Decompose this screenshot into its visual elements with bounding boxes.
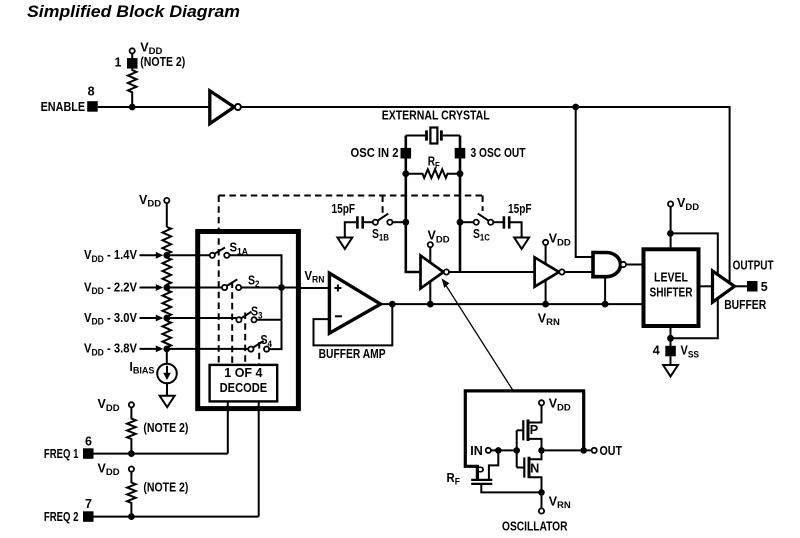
transistor RF (P pass) <box>471 480 492 484</box>
junction node IN <box>495 447 502 454</box>
wire ENABLE to inverter <box>98 106 210 108</box>
switch S4 <box>248 347 253 352</box>
current source IBIAS <box>157 364 177 384</box>
junction node VDD wrap <box>667 230 674 237</box>
level shifter U6 <box>644 249 699 326</box>
svg-text:1: 1 <box>115 55 122 69</box>
arrow VDD-3.8V <box>140 348 158 350</box>
wire buffer to pin 5 <box>735 285 748 287</box>
VDD terminal (inset) <box>539 400 544 405</box>
op-amp U5 buffer amp <box>329 273 380 333</box>
svg-text:DECODE: DECODE <box>220 381 268 395</box>
node tap VDD-1.4V <box>163 252 170 259</box>
wire S2 to common node <box>241 287 298 289</box>
junction node S1B/OSC IN <box>402 219 409 226</box>
svg-text:4: 4 <box>653 344 660 358</box>
N source to VRN <box>529 477 542 492</box>
wire crystal right <box>443 135 460 137</box>
switch S2 <box>222 285 227 290</box>
VDD terminal (level shifter) <box>668 201 673 206</box>
svg-text:P: P <box>530 423 538 437</box>
wire S1C to C2 <box>493 221 503 223</box>
svg-text:N: N <box>530 462 539 476</box>
junction node U3/VRN <box>542 301 549 308</box>
resistor ladder R4 <box>163 290 172 318</box>
switch S1C <box>474 220 479 225</box>
wire S3 to common <box>257 319 282 321</box>
arrow VDD-1.4V <box>140 254 158 256</box>
P source to VDD <box>528 405 542 422</box>
pin 3 pad OSC OUT <box>455 148 466 159</box>
wire OSC IN branch <box>406 136 421 273</box>
buffer supply wrap wire <box>670 233 717 338</box>
junction node inset VRN <box>538 489 545 496</box>
wire C1 to S1B <box>363 221 373 223</box>
svg-text:OSC IN 2: OSC IN 2 <box>351 146 399 160</box>
resistor ladder R3 <box>163 258 172 288</box>
ground (VSS) <box>663 365 678 376</box>
wire tap3 to S3 <box>167 317 237 319</box>
pin 8 pad ENABLE <box>87 101 98 112</box>
svg-text:OUTPUT: OUTPUT <box>733 259 774 273</box>
dashed control S4 <box>258 342 260 365</box>
wire level shifter to VSS <box>670 326 672 346</box>
pin 7 pad <box>83 511 94 522</box>
crystal Y1 <box>427 130 442 140</box>
wire IN to gates <box>491 449 517 451</box>
svg-text:OUT: OUT <box>600 444 623 458</box>
wire tap1 to S1A <box>167 254 210 256</box>
inset feedback outline wire <box>465 391 583 479</box>
junction node feedback <box>389 301 396 308</box>
junction node inset out <box>538 447 545 454</box>
svg-text:BUFFER: BUFFER <box>724 298 766 312</box>
output buffer U7 <box>713 271 735 302</box>
wire out node to OUT <box>542 449 592 451</box>
minus input mark <box>335 315 342 317</box>
VDD terminal (pin 1 pull-up) <box>130 48 135 53</box>
svg-text:(NOTE 2): (NOTE 2) <box>143 480 188 494</box>
junction node VSS wrap <box>667 335 674 342</box>
svg-text:LEVEL: LEVEL <box>654 270 688 284</box>
wire FREQ1 <box>94 453 228 455</box>
svg-text:1 OF 4: 1 OF 4 <box>224 366 262 380</box>
dashed control S1B <box>382 196 384 215</box>
arrow VDD-3.0V <box>140 317 158 319</box>
switch S1A <box>210 253 215 258</box>
wire IN to RF transistor <box>489 450 498 479</box>
svg-text:7: 7 <box>85 497 92 511</box>
wire NAND bottom to VRN rail <box>604 277 606 304</box>
junction node feedback/out <box>580 447 587 454</box>
wire crystal left <box>406 135 425 137</box>
junction node RF left <box>402 170 409 177</box>
dashed control S3 <box>244 313 246 365</box>
wire tap4 to S4 <box>167 348 249 350</box>
wire VDD through osc inverter to VRN rail <box>429 247 431 304</box>
VDD terminal FREQ1 <box>129 402 134 407</box>
NAND gate U4 <box>593 253 621 277</box>
wire tap2 to S2 <box>167 287 222 289</box>
IN terminal <box>486 448 491 453</box>
wire VDD to pin 1 <box>131 54 133 59</box>
dashed control S1C <box>482 196 484 212</box>
svg-text:15pF: 15pF <box>508 202 532 216</box>
dashed decode rail <box>219 195 483 197</box>
junction node pull-up/ENABLE <box>129 104 136 111</box>
junction node NAND/VRN <box>602 301 609 308</box>
junction node FREQ2 <box>128 513 135 520</box>
inverter U3 <box>535 257 559 286</box>
dashed control S1A <box>218 196 220 365</box>
resistor RF feedback <box>406 169 460 178</box>
wire current source to ground <box>166 383 168 396</box>
capacitor C2 15pF <box>504 216 509 228</box>
svg-text:FREQ 1: FREQ 1 <box>44 447 79 461</box>
OUT terminal <box>592 448 597 453</box>
VDD terminal (osc inverter) <box>428 242 433 247</box>
svg-text:5: 5 <box>761 280 768 294</box>
wire RF gate to VRN <box>481 484 541 493</box>
wire S1C to OSC OUT <box>460 221 474 223</box>
junction node S1C/OSC OUT <box>457 219 464 226</box>
pin 5 pad OUTPUT <box>747 281 758 292</box>
node tap VDD-3.0V <box>163 315 170 322</box>
oscillator inverter U2 <box>421 256 444 289</box>
svg-text:(NOTE 2): (NOTE 2) <box>143 421 188 435</box>
svg-text:Simplified Block Diagram: Simplified Block Diagram <box>27 3 240 21</box>
dashed control S2 <box>231 282 233 365</box>
wire U1 output to top rail <box>241 107 730 282</box>
resistor R1 (ENABLE pull-up) <box>128 69 137 107</box>
node tap VDD-3.8V <box>163 346 170 353</box>
wire VRN common to op-amp <box>298 287 329 289</box>
capacitor C1 15pF <box>357 216 362 228</box>
ground (C1) <box>337 238 352 249</box>
svg-text:ENABLE: ENABLE <box>41 100 86 114</box>
arrow VDD-2.2V <box>140 287 158 289</box>
switch bank box <box>198 232 299 409</box>
svg-text:OSCILLATOR: OSCILLATOR <box>502 519 568 533</box>
svg-text:15pF: 15pF <box>332 202 356 216</box>
svg-text:IN: IN <box>470 444 483 458</box>
junction node gates <box>513 447 520 454</box>
enable inverter U1 <box>210 91 234 124</box>
VDD terminal FREQ2 <box>129 467 134 472</box>
transistor N (inset CMOS) <box>517 467 525 469</box>
wire C2 to ground <box>509 222 521 237</box>
svg-text:8: 8 <box>88 84 95 98</box>
junction node VRN common <box>278 284 285 291</box>
wire top rail to NAND input <box>576 107 593 257</box>
switch S1B <box>373 220 378 225</box>
svg-text:BUFFER AMP: BUFFER AMP <box>319 347 386 361</box>
wire VRN node down <box>541 492 543 508</box>
wire NAND out to level shifter <box>626 264 644 266</box>
resistor ladder R5 <box>163 321 172 349</box>
wire U3 out to NAND <box>565 271 593 273</box>
switch S3 <box>236 317 241 322</box>
wire decode to FREQ2 <box>258 401 260 516</box>
wire S1B to OSC IN <box>393 221 406 223</box>
feedback wire op-amp <box>314 304 393 345</box>
wire S4 to common <box>269 288 281 350</box>
wire VDD to level shifter <box>670 207 672 250</box>
pin 4 pad VSS <box>665 346 676 357</box>
node tap VDD-2.2V <box>163 284 170 291</box>
resistor ladder R2 <box>163 227 172 255</box>
transistor P (inset CMOS) <box>517 429 524 431</box>
svg-text:3 OSC OUT: 3 OSC OUT <box>471 146 526 160</box>
pin 1 pad <box>127 58 138 69</box>
wire VSS to ground <box>670 356 672 365</box>
svg-text:6: 6 <box>85 435 92 449</box>
svg-text:P: P <box>476 465 484 479</box>
svg-text:FREQ 2: FREQ 2 <box>44 510 79 524</box>
VRN terminal (inset) <box>539 508 544 513</box>
junction node RF right <box>457 170 464 177</box>
svg-text:SHIFTER: SHIFTER <box>650 285 693 299</box>
ground (C2) <box>514 238 529 249</box>
ground (IBIAS) <box>160 396 175 407</box>
junction node on top rail <box>572 104 579 111</box>
plus input mark <box>334 285 341 292</box>
common gate wire <box>516 430 518 467</box>
resistor FREQ1 pull-up <box>127 407 136 453</box>
arrow inset to oscillator inverter <box>444 283 513 391</box>
svg-text:(NOTE 2): (NOTE 2) <box>140 55 185 69</box>
wire level shifter to output buffer <box>699 285 713 287</box>
wire OSC OUT branch <box>459 136 462 273</box>
pin 2 pad OSC IN <box>401 148 412 159</box>
VDD terminal (inverter U3) <box>543 240 548 245</box>
junction node U2/VRN <box>427 301 434 308</box>
wire S1A to common <box>229 255 281 287</box>
wire ground to C1 <box>345 222 356 237</box>
junction node FREQ1 <box>128 450 135 457</box>
1 OF 4 DECODE box <box>210 365 278 402</box>
wire decode to FREQ1 <box>227 401 229 453</box>
svg-text:EXTERNAL CRYSTAL: EXTERNAL CRYSTAL <box>382 109 490 123</box>
wire VDD through U3 to VRN rail <box>545 245 547 304</box>
pin 6 pad <box>83 448 94 459</box>
wire VDD to ladder <box>166 203 168 227</box>
VRN rail <box>381 303 644 305</box>
wire tap4 to current source <box>166 349 168 364</box>
VDD terminal (ladder top) <box>164 198 169 203</box>
wire U2 out to U3 <box>449 271 535 273</box>
resistor FREQ2 pull-up <box>127 472 136 517</box>
wire FREQ2 <box>94 516 259 518</box>
N drain to out node <box>529 450 542 459</box>
P drain to out node <box>528 439 542 451</box>
